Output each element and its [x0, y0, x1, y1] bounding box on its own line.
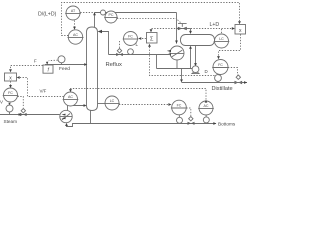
svg-text:PC: PC	[109, 13, 114, 17]
signal feed FT to f box	[49, 59, 58, 61]
pump suction from drum	[195, 46, 197, 64]
base level controller LC	[105, 96, 119, 110]
steam line	[0, 114, 60, 116]
signal FC to distillate valve	[228, 68, 238, 76]
bottoms FT	[177, 117, 183, 123]
sample signal to AT	[80, 12, 102, 14]
signal PC to vapor valve	[117, 18, 176, 20]
distillate line	[182, 82, 248, 84]
reflux line	[109, 54, 171, 56]
svg-text:AC: AC	[68, 95, 73, 99]
signal bottoms AC to ratio controller	[205, 100, 208, 103]
distillate valve	[236, 75, 240, 79]
signal X to distillate FC	[219, 34, 241, 56]
multiplier X	[235, 25, 246, 35]
svg-text:Σ: Σ	[150, 37, 154, 43]
condensate return up to drum	[190, 49, 192, 69]
reboiler liquid loop	[67, 124, 91, 127]
steam valve	[20, 113, 27, 116]
vapor line down to condenser	[176, 13, 178, 44]
svg-text:FC: FC	[218, 63, 223, 67]
steam flow controller FC	[4, 88, 18, 102]
LC tap	[98, 103, 106, 105]
signal FC to reflux valve	[119, 41, 121, 48]
svg-text:LC: LC	[219, 37, 224, 41]
reboiler	[60, 110, 72, 122]
bottoms line	[91, 123, 217, 125]
composition controller AC	[68, 30, 82, 44]
L+D corridor from LC	[152, 28, 234, 30]
svg-text:Steam: Steam	[4, 119, 18, 124]
signal X to steam FC	[10, 81, 12, 85]
signal f box to feedforward multiplier	[11, 66, 43, 69]
bottoms flow controller FC	[172, 100, 187, 115]
svg-text:Distillate: Distillate	[212, 86, 233, 92]
signal AT to AC	[74, 21, 76, 27]
analyzer transmitter AT	[66, 6, 80, 20]
summer box	[147, 33, 158, 44]
reflux riser to column top	[101, 32, 109, 55]
svg-text:L+D: L+D	[210, 22, 220, 28]
condenser	[170, 46, 184, 60]
feed FT	[58, 56, 65, 63]
svg-text:V: V	[0, 100, 3, 105]
column base downcomer	[90, 110, 92, 123]
signal loop D/(L+D) from AC to multiplier X	[62, 3, 240, 36]
bottoms analyzer AC	[199, 101, 213, 115]
overhead riser from column top	[94, 13, 96, 28]
reflux drum	[181, 35, 215, 46]
sample point on overhead line	[101, 10, 106, 15]
svg-text:D/(L+D): D/(L+D)	[38, 12, 57, 18]
signal FC to steam valve	[18, 97, 24, 108]
svg-text:Feed: Feed	[59, 66, 70, 72]
V/F ratio signal into X	[20, 78, 64, 97]
svg-text:Bottoms: Bottoms	[218, 121, 236, 126]
bottoms sample FT	[203, 117, 209, 123]
svg-text:Reflux: Reflux	[106, 62, 123, 68]
svg-text:D: D	[205, 69, 208, 74]
svg-text:AC: AC	[73, 33, 78, 37]
bottoms valve	[189, 117, 193, 121]
distillate down leg	[181, 69, 183, 80]
feedforward multiplier X	[5, 73, 17, 81]
svg-text:F: F	[34, 58, 37, 63]
V/F ratio controller AC	[64, 92, 78, 106]
feed pipe	[45, 64, 84, 66]
FC to steam FT arrow	[8, 103, 10, 106]
reboiler vapor return	[68, 106, 85, 111]
feed dynamic element f	[43, 65, 53, 73]
svg-text:FC: FC	[177, 104, 182, 108]
svg-text:FC: FC	[8, 91, 13, 95]
svg-text:FC: FC	[128, 35, 133, 39]
pump	[192, 66, 199, 73]
vapor valve	[178, 23, 187, 25]
pressure controller PC	[105, 11, 117, 23]
steam FT	[6, 105, 13, 112]
signal FC to bottoms valve	[186, 108, 191, 116]
reflux flow controller FC	[124, 32, 138, 46]
tap from reflux line to header	[156, 55, 158, 69]
column	[87, 27, 98, 111]
svg-text:LC: LC	[110, 99, 115, 103]
condensate header	[157, 68, 193, 70]
condensate drop leg	[176, 60, 178, 69]
distillate flow controller FC	[213, 60, 228, 75]
signal LC to bottoms FC	[119, 104, 168, 106]
drum level controller LC	[215, 34, 229, 48]
overhead vapor line	[95, 12, 177, 14]
D measurement to summer	[150, 47, 215, 76]
svg-text:V/F: V/F	[40, 89, 47, 94]
LC stub to corridor	[221, 29, 223, 34]
reflux valve	[116, 53, 123, 56]
svg-text:AC: AC	[204, 104, 209, 108]
reflux flow orifice	[128, 49, 134, 55]
distillate FT	[215, 75, 222, 82]
hot vapor bypass to drum	[177, 28, 191, 30]
signal summer to reflux FC	[142, 38, 146, 40]
coolant arrows	[167, 50, 171, 52]
